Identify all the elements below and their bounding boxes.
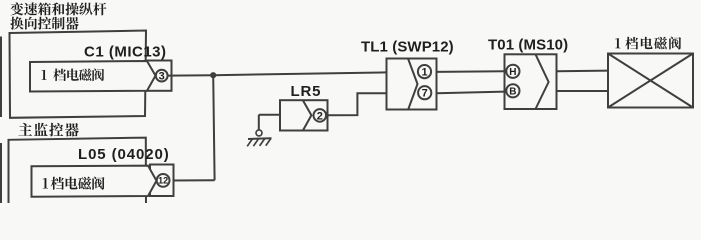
svg-text:12: 12: [158, 176, 168, 186]
connector C1 wedge body: [30, 61, 156, 92]
wire: T01 B to solenoid: [557, 90, 610, 92]
LR5 wedge: [303, 101, 311, 131]
wire: LR5 pin2 to TL1 pin7: [326, 93, 386, 115]
pin 12 of L05: [157, 174, 170, 187]
component box: main monitor (cut off at bottom): [9, 138, 147, 210]
T01 wedge: [536, 54, 549, 109]
svg-text:1: 1: [421, 67, 427, 79]
component box: reversing controller: [10, 31, 147, 118]
wire: LR5 left to ground drop: [259, 114, 280, 116]
pin H of T01: [506, 65, 519, 78]
pin B of T01: [506, 84, 519, 97]
svg-text:B: B: [509, 86, 516, 97]
pin 1 of TL1: [418, 65, 431, 78]
label: 变速箱和操纵杆 (transmission and joystick) line 1: [10, 2, 106, 15]
connector T01 box: [505, 54, 557, 109]
svg-text:7: 7: [422, 88, 428, 100]
wire: pin3 to junction: [168, 74, 214, 76]
svg-text:3: 3: [159, 71, 165, 83]
connector L05 wedge body: [32, 166, 157, 197]
label: 主监控器 (main monitor): [18, 123, 78, 137]
text: 1档电磁阀 inside L05 body: [43, 177, 105, 190]
wire: T01 H to solenoid: [557, 70, 610, 73]
TL1 wedge: [408, 59, 418, 111]
clipped element line at left image edge (lower): [0, 143, 2, 203]
connector L05 pin housing box: [150, 165, 174, 197]
connector LR5 box: [280, 100, 328, 130]
clipped element line at left image edge (upper): [0, 37, 2, 118]
wire: TL1 pin7 to T01 pin B: [437, 92, 505, 94]
label: 1 档电磁阀 (1st gear solenoid): [615, 37, 681, 50]
svg-text:T01 (MS10): T01 (MS10): [488, 37, 568, 54]
label: 换向控制器 (reversing controller) line 2: [10, 17, 78, 30]
svg-text:C1 (MIC13): C1 (MIC13): [84, 44, 167, 61]
wire: TL1 pin1 to T01 pin H: [437, 70, 505, 73]
wire: across to pin 12: [170, 179, 215, 181]
svg-text:LR5: LR5: [291, 83, 322, 100]
solenoid coil box with X: [608, 54, 693, 108]
svg-text:H: H: [509, 67, 516, 78]
svg-text:L05 (04020): L05 (04020): [78, 146, 170, 163]
text: 1 档电磁阀 (1st gear solenoid) inside C1 body: [42, 68, 105, 81]
pin 7 of TL1: [418, 86, 431, 99]
ground hatch strokes: [247, 139, 252, 146]
ground symbol circle: [256, 130, 262, 136]
pin 2 of LR5: [314, 109, 327, 122]
pin 3 of C1: [156, 70, 168, 82]
wire: junction to TL1 pin1: [213, 72, 386, 75]
ground bar: [248, 137, 272, 140]
wire: junction down to L05 pin12 level: [213, 75, 214, 180]
connector TL1 box: [387, 59, 437, 110]
junction node dot: [210, 72, 216, 78]
svg-text:2: 2: [317, 110, 323, 122]
svg-text:TL1 (SWP12): TL1 (SWP12): [361, 39, 454, 56]
connector C1 pin housing box: [147, 61, 172, 91]
